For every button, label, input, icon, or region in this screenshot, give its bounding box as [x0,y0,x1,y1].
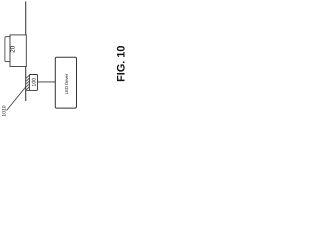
wire sensor to LED driver [38,81,56,83]
leader line 1010 [7,87,26,111]
sensor box 100 [29,75,37,91]
LED Driver box [55,57,76,108]
svg-text:1010: 1010 [1,105,7,116]
wire wall line (vertical panel edge) [25,1,27,101]
svg-text:LED Driver: LED Driver [64,73,69,94]
svg-text:FIG. 10: FIG. 10 [116,46,128,82]
background [0,0,131,120]
svg-text:100: 100 [32,78,38,87]
slab 20 [10,35,26,67]
svg-text:20: 20 [10,45,17,52]
strip behind slab 20 [5,37,10,62]
hatch window 1010 [26,75,30,91]
